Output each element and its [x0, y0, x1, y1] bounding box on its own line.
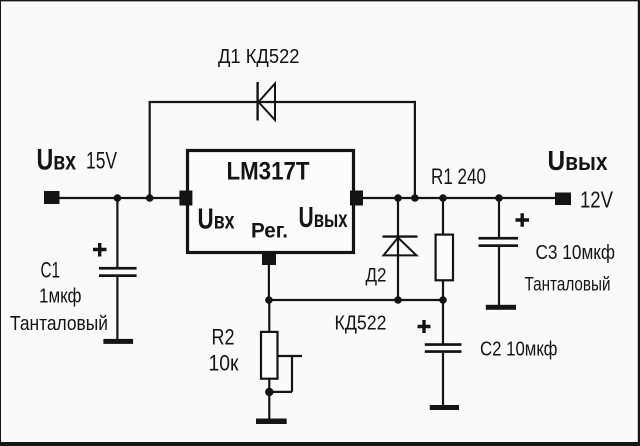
regulator U1 LM317T box — [188, 151, 354, 253]
svg-text:12V: 12V — [580, 187, 614, 213]
ground C2 — [430, 405, 459, 410]
svg-text:R1 240: R1 240 — [431, 164, 486, 189]
svg-text:Uвых: Uвых — [548, 145, 609, 176]
capacitor C3 — [479, 237, 519, 247]
ground R2 — [256, 419, 287, 425]
output terminal — [555, 193, 571, 206]
wire R1 top — [442, 198, 444, 235]
svg-text:1мкф: 1мкф — [39, 286, 82, 308]
wire C1 bottom — [116, 277, 118, 340]
wire C1 top — [116, 198, 118, 268]
svg-text:Uвх: Uвх — [37, 143, 77, 176]
wire D1 loop top — [149, 101, 416, 103]
resistor R2 (trimmer) — [261, 332, 278, 379]
wire adjust vertical — [268, 265, 270, 300]
node D2 top — [394, 194, 402, 202]
svg-text:LM317T: LM317T — [227, 158, 310, 186]
svg-text:Д2: Д2 — [366, 265, 387, 287]
pin Рег (adjust pin) — [262, 251, 276, 265]
diode D2 — [383, 237, 418, 256]
node C2 top / R1 bottom — [439, 296, 447, 304]
wire input rail — [60, 197, 181, 199]
polarity + of C1 — [93, 243, 107, 257]
svg-text:C2 10мкф: C2 10мкф — [480, 339, 558, 361]
pin Uвх (input pin) — [179, 191, 192, 206]
node input/C1 junction — [114, 194, 122, 202]
wire R2 bottom — [268, 379, 270, 419]
wire D1 loop left — [149, 101, 151, 198]
wire adjust rail — [269, 299, 443, 301]
node R1 top — [439, 194, 447, 202]
node D1 loop / output junction — [411, 194, 419, 202]
ground C3 — [486, 305, 516, 310]
svg-text:Рег.: Рег. — [251, 220, 288, 243]
input terminal — [44, 191, 60, 204]
node D2 bottom — [394, 296, 402, 304]
wire C2 top — [442, 300, 444, 344]
wire C3 top — [498, 198, 500, 238]
svg-text:Танталовый: Танталовый — [10, 313, 108, 335]
wire C2 bottom — [442, 353, 444, 406]
wire R1 bottom — [442, 280, 444, 300]
pin Uвых (output pin) — [350, 191, 363, 206]
polarity + of C2 — [418, 320, 431, 333]
svg-text:C1: C1 — [41, 258, 61, 283]
wire D1 loop right — [414, 101, 416, 198]
svg-text:R2: R2 — [212, 325, 235, 350]
wire C3 bottom — [498, 247, 500, 306]
svg-text:КД522: КД522 — [335, 313, 387, 335]
node input/D1-loop junction — [146, 194, 154, 202]
svg-text:Танталовый: Танталовый — [525, 275, 611, 296]
svg-text:10к: 10к — [209, 351, 239, 376]
svg-text:Д1 КД522: Д1 КД522 — [218, 46, 300, 68]
wire R2 wiper — [269, 356, 302, 392]
svg-text:Uвх: Uвх — [198, 203, 235, 235]
svg-text:15V: 15V — [86, 148, 117, 175]
wire D2 vertical — [397, 198, 399, 300]
diode D1 — [258, 82, 275, 121]
node R2 wiper bottom — [265, 388, 273, 396]
capacitor C1 — [99, 267, 137, 277]
ground C1 — [103, 339, 133, 344]
node adjust/R2 — [265, 296, 273, 304]
node C3 top — [495, 194, 503, 202]
wire output rail — [363, 197, 555, 199]
wire R2 top — [268, 300, 270, 332]
polarity + of C3 — [516, 213, 530, 227]
capacitor C2 — [425, 343, 462, 353]
svg-text:Uвых: Uвых — [299, 202, 348, 234]
resistor R1 — [436, 235, 453, 281]
svg-text:C3 10мкф: C3 10мкф — [536, 242, 616, 264]
